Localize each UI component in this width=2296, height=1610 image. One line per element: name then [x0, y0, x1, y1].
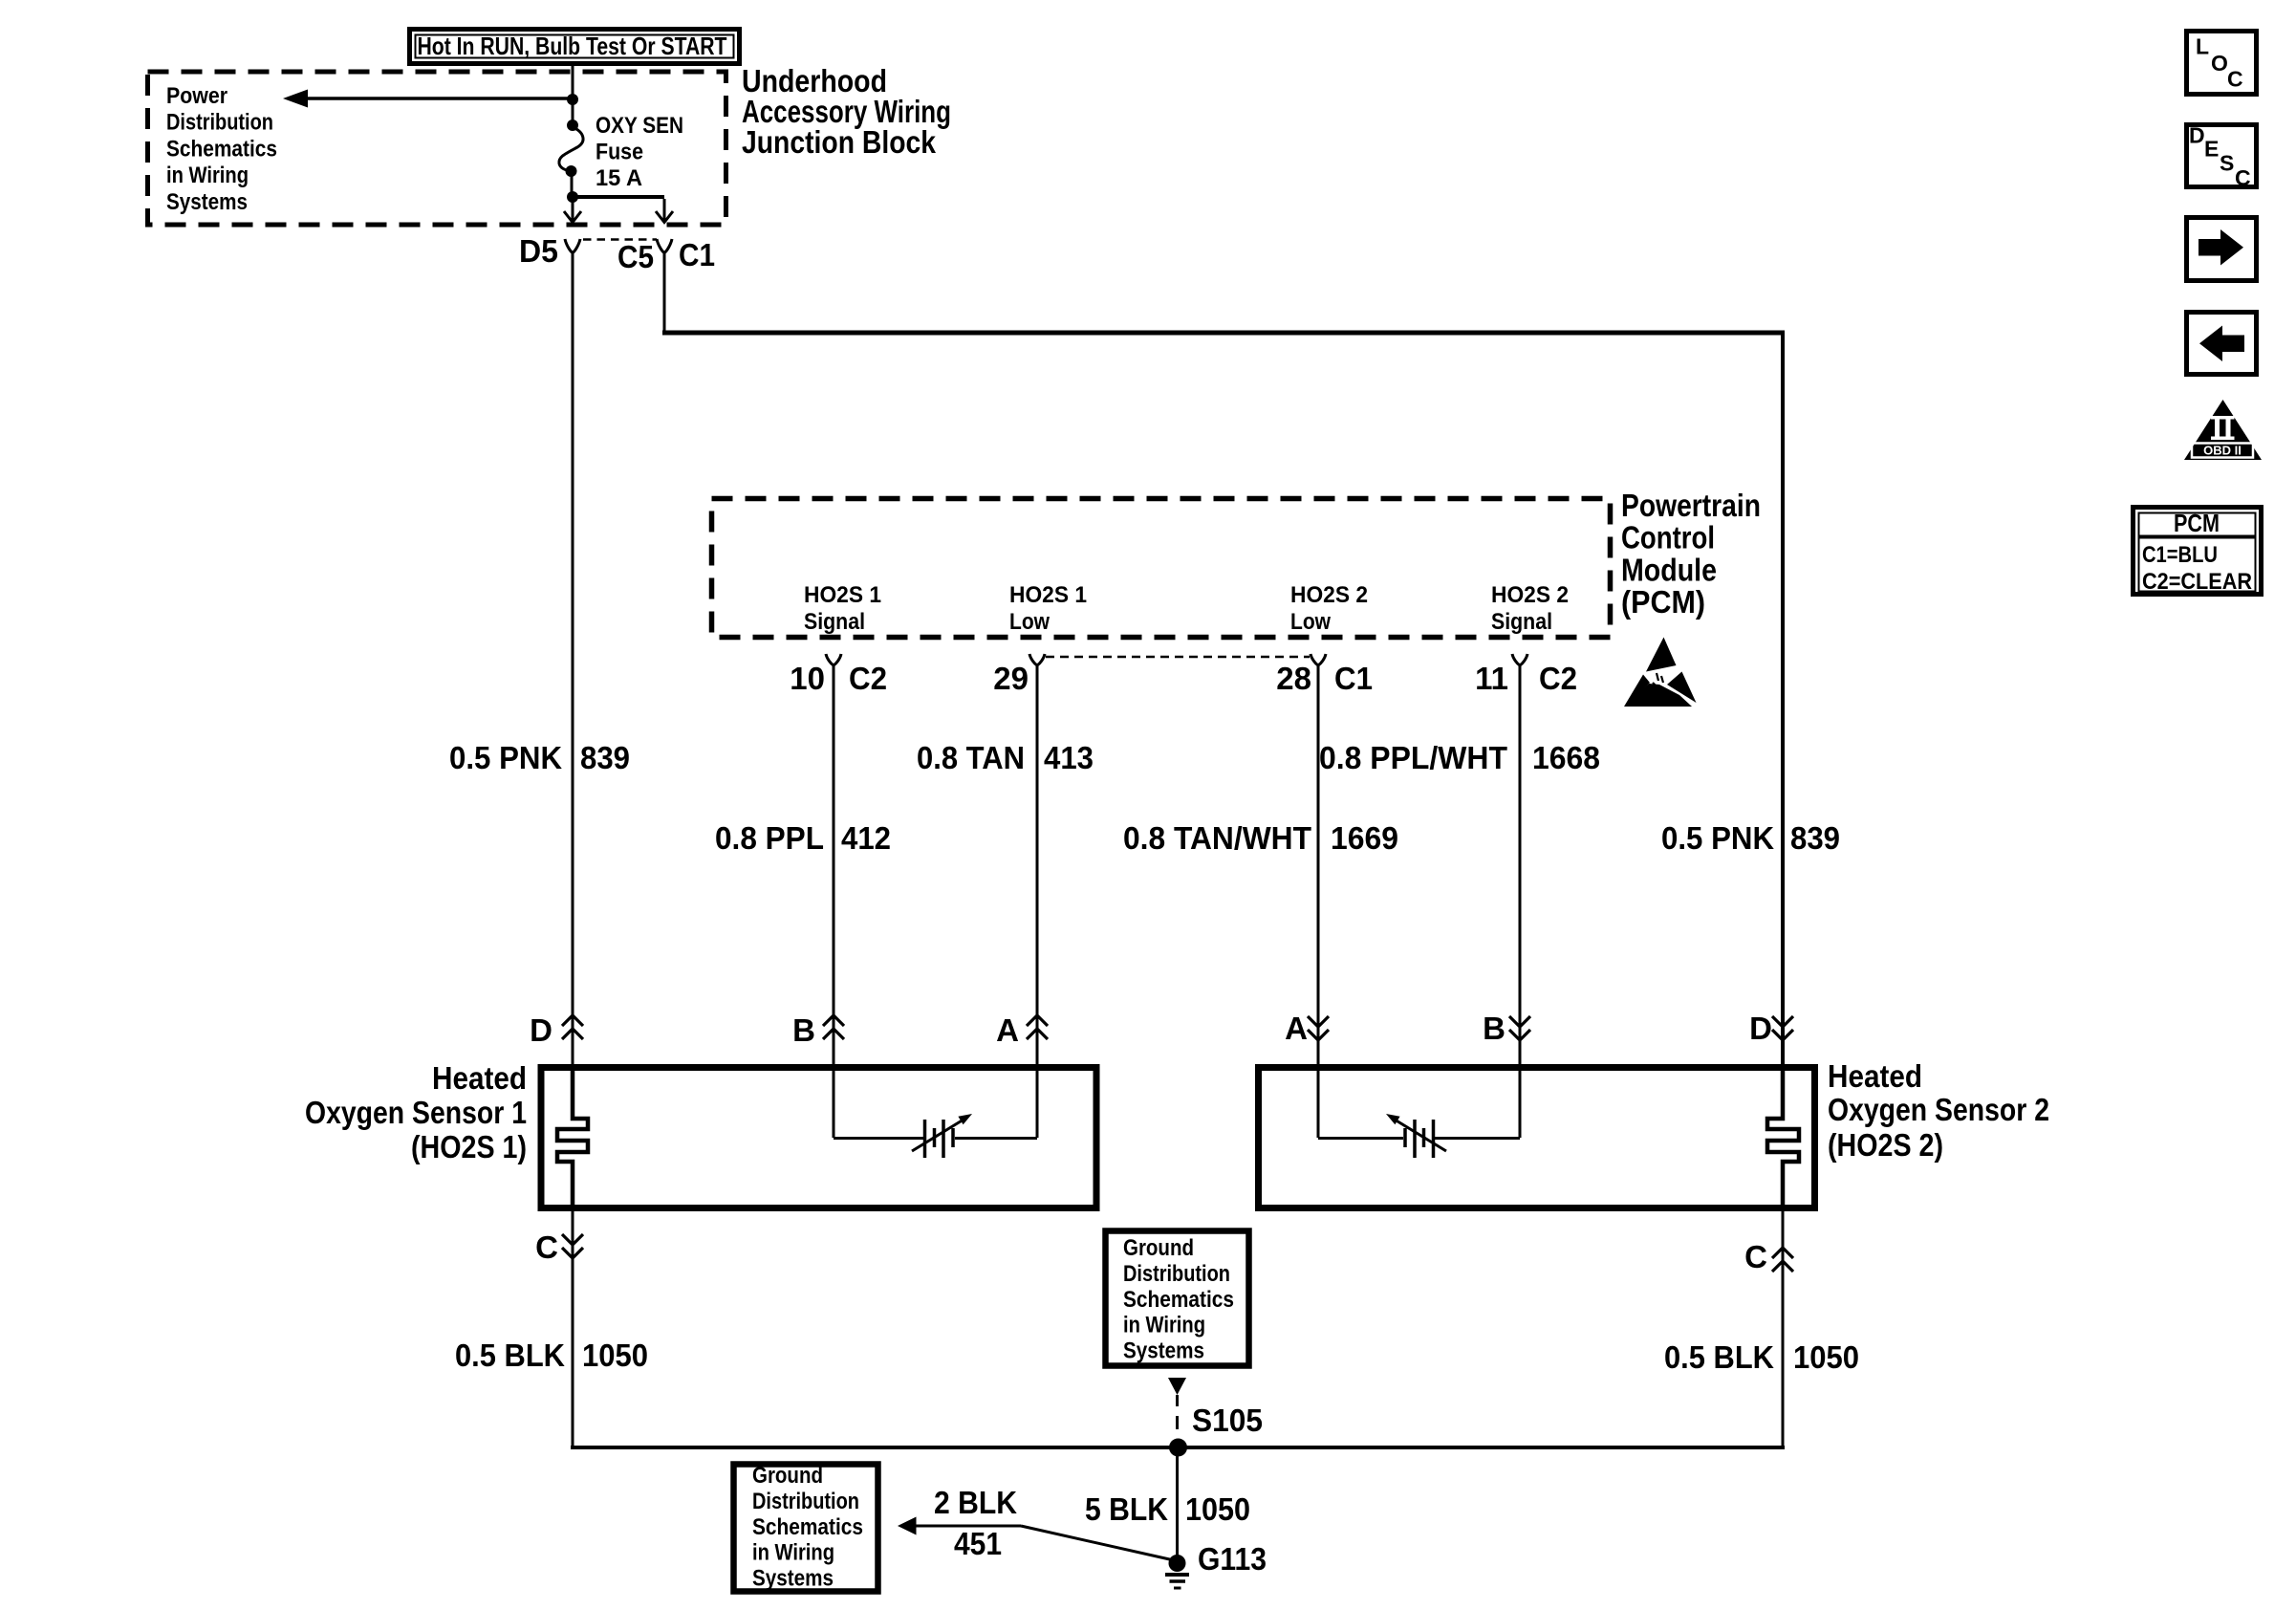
svg-text:B: B [1483, 1011, 1505, 1046]
svg-text:HO2S 2: HO2S 2 [1290, 582, 1368, 608]
svg-text:1050: 1050 [1793, 1339, 1859, 1375]
svg-text:28: 28 [1276, 661, 1311, 696]
svg-text:0.8 PPL: 0.8 PPL [715, 820, 824, 856]
svg-text:C2=CLEAR: C2=CLEAR [2142, 569, 2252, 595]
svg-text:HO2S 2: HO2S 2 [1491, 582, 1569, 608]
svg-text:Heated: Heated [432, 1060, 527, 1096]
svg-text:Distribution: Distribution [1123, 1261, 1230, 1287]
svg-text:0.5 BLK: 0.5 BLK [1664, 1339, 1774, 1375]
svg-text:C5: C5 [617, 239, 654, 274]
svg-text:C2: C2 [1539, 661, 1577, 696]
svg-text:11: 11 [1475, 661, 1508, 696]
svg-text:D: D [530, 1012, 552, 1048]
svg-text:Distribution: Distribution [166, 110, 273, 136]
svg-text:0.8 TAN: 0.8 TAN [917, 740, 1025, 775]
svg-text:0.8 TAN/WHT: 0.8 TAN/WHT [1123, 820, 1311, 856]
svg-text:HO2S 1: HO2S 1 [1009, 582, 1087, 608]
svg-text:Signal: Signal [804, 609, 865, 635]
svg-text:Schematics: Schematics [166, 136, 277, 162]
svg-text:Oxygen Sensor 1: Oxygen Sensor 1 [305, 1095, 527, 1130]
svg-text:in Wiring: in Wiring [752, 1540, 834, 1566]
svg-text:Fuse: Fuse [596, 139, 643, 164]
svg-text:(HO2S 1): (HO2S 1) [411, 1129, 527, 1164]
svg-text:L: L [2196, 34, 2209, 59]
svg-text:A: A [996, 1012, 1019, 1048]
svg-text:(HO2S 2): (HO2S 2) [1828, 1127, 1943, 1163]
svg-text:(PCM): (PCM) [1621, 584, 1705, 620]
svg-text:PCM: PCM [2174, 509, 2220, 537]
svg-text:C1: C1 [679, 237, 715, 272]
svg-text:B: B [792, 1012, 815, 1048]
svg-text:412: 412 [841, 820, 891, 856]
svg-text:E: E [2204, 137, 2219, 162]
svg-text:Systems: Systems [166, 189, 248, 215]
svg-text:C1: C1 [1334, 661, 1373, 696]
svg-text:2 BLK: 2 BLK [934, 1485, 1017, 1520]
svg-text:413: 413 [1044, 740, 1094, 775]
svg-text:839: 839 [580, 740, 630, 775]
svg-text:1050: 1050 [582, 1338, 648, 1373]
svg-text:Hot In RUN, Bulb Test Or START: Hot In RUN, Bulb Test Or START [418, 32, 727, 60]
svg-text:A: A [1285, 1011, 1308, 1046]
svg-text:C: C [1744, 1239, 1767, 1274]
svg-text:C1=BLU: C1=BLU [2142, 542, 2218, 568]
svg-text:HO2S 1: HO2S 1 [804, 582, 881, 608]
svg-text:OBD II: OBD II [2203, 444, 2242, 458]
svg-text:S: S [2220, 151, 2234, 176]
svg-text:S105: S105 [1192, 1403, 1263, 1438]
svg-text:Ground: Ground [1123, 1235, 1194, 1261]
svg-text:0.8 PPL/WHT: 0.8 PPL/WHT [1319, 740, 1507, 775]
svg-text:D: D [2189, 123, 2205, 148]
svg-text:Schematics: Schematics [752, 1514, 863, 1540]
svg-text:in Wiring: in Wiring [1123, 1313, 1205, 1338]
svg-text:10: 10 [790, 661, 825, 696]
svg-text:1050: 1050 [1185, 1491, 1250, 1527]
svg-text:C2: C2 [849, 661, 887, 696]
svg-text:Low: Low [1290, 609, 1331, 635]
svg-text:C: C [535, 1229, 558, 1265]
svg-text:0.5 PNK: 0.5 PNK [449, 740, 562, 775]
svg-text:Oxygen Sensor 2: Oxygen Sensor 2 [1828, 1092, 2049, 1127]
svg-text:Signal: Signal [1491, 609, 1552, 635]
svg-text:Schematics: Schematics [1123, 1287, 1234, 1313]
svg-text:29: 29 [993, 661, 1029, 696]
svg-text:D5: D5 [519, 233, 558, 269]
svg-text:D: D [1749, 1011, 1772, 1046]
svg-text:Ground: Ground [752, 1463, 823, 1489]
svg-text:Systems: Systems [1123, 1338, 1204, 1364]
svg-text:451: 451 [954, 1526, 1002, 1561]
svg-text:G113: G113 [1198, 1541, 1267, 1577]
svg-text:839: 839 [1790, 820, 1840, 856]
svg-text:Powertrain: Powertrain [1621, 488, 1761, 523]
svg-text:15 A: 15 A [596, 165, 642, 191]
svg-text:Low: Low [1009, 609, 1050, 635]
svg-text:1669: 1669 [1331, 820, 1398, 856]
svg-text:1668: 1668 [1532, 740, 1600, 775]
svg-text:OXY SEN: OXY SEN [596, 113, 683, 139]
svg-text:Control: Control [1621, 520, 1715, 555]
svg-text:C: C [2235, 165, 2251, 190]
svg-text:Module: Module [1621, 552, 1717, 587]
svg-text:Heated: Heated [1828, 1058, 1922, 1094]
svg-text:C: C [2227, 67, 2243, 92]
svg-text:Junction Block: Junction Block [742, 124, 937, 160]
svg-text:Power: Power [166, 83, 227, 109]
svg-text:5 BLK: 5 BLK [1085, 1491, 1168, 1527]
svg-text:0.5 PNK: 0.5 PNK [1661, 820, 1774, 856]
svg-text:Systems: Systems [752, 1566, 834, 1592]
svg-text:Distribution: Distribution [752, 1489, 859, 1514]
svg-text:O: O [2211, 51, 2228, 76]
svg-text:0.5 BLK: 0.5 BLK [455, 1338, 565, 1373]
svg-text:in Wiring: in Wiring [166, 163, 249, 188]
